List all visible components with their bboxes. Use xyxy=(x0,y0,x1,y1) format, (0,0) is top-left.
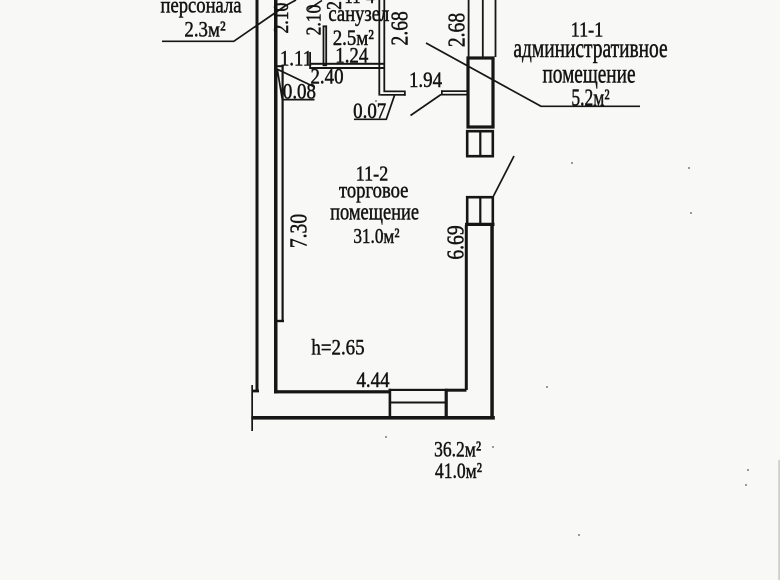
svg-text:4.44: 4.44 xyxy=(356,368,390,393)
window W1 xyxy=(467,130,493,157)
stairs xyxy=(389,389,447,418)
svg-text:1.11: 1.11 xyxy=(280,46,312,71)
leader to window xyxy=(494,156,515,196)
window W2 xyxy=(465,196,495,226)
floor plan line work xyxy=(162,0,640,431)
wall right outer lower xyxy=(490,225,494,418)
svg-text:0.08: 0.08 xyxy=(283,79,316,104)
svg-text:2.10: 2.10 xyxy=(271,3,294,34)
leader персонала xyxy=(162,0,296,41)
svg-text:персонала: персонала xyxy=(160,0,241,18)
svg-text:2.68: 2.68 xyxy=(385,11,413,45)
wall stub 0.07 xyxy=(380,91,406,96)
wall toilet bottom double line xyxy=(309,52,383,69)
vestibule step wall xyxy=(445,389,467,419)
svg-text:41.0м²: 41.0м² xyxy=(435,459,482,484)
svg-text:h=2.65: h=2.65 xyxy=(311,335,364,360)
svg-text:2.10: 2.10 xyxy=(303,5,326,36)
scan edge right xyxy=(778,460,780,580)
wall left outer xyxy=(252,0,259,392)
wall right inner lower xyxy=(465,225,468,390)
wall toilet left xyxy=(324,26,327,65)
svg-text:2.68: 2.68 xyxy=(442,13,470,47)
svg-text:помещение: помещение xyxy=(330,198,419,225)
svg-text:0.07: 0.07 xyxy=(353,99,386,124)
leader 11-1 xyxy=(426,43,640,106)
leader 0.08 xyxy=(277,69,314,99)
wall pier right xyxy=(468,58,493,127)
bottom wall inner xyxy=(275,390,391,393)
wall left pilaster strip xyxy=(274,65,284,322)
svg-text:санузел: санузел xyxy=(328,0,389,26)
extension line bottom-left xyxy=(251,385,253,431)
svg-text:31.0м²: 31.0м² xyxy=(353,226,399,249)
scan specks xyxy=(375,100,749,536)
svg-text:7.30: 7.30 xyxy=(284,214,312,248)
svg-text:6.69: 6.69 xyxy=(441,225,469,259)
window above pier xyxy=(468,0,497,57)
slash through 2.10 second xyxy=(308,1,322,10)
wall stub right of door xyxy=(441,90,467,95)
svg-text:1.94: 1.94 xyxy=(409,67,443,92)
bottom wall outer xyxy=(251,416,494,420)
leader 0.07 xyxy=(354,95,395,119)
svg-text:5.2м²: 5.2м² xyxy=(571,84,609,111)
svg-text:2.3м²: 2.3м² xyxy=(184,17,225,42)
wall left inner xyxy=(274,0,278,394)
wall toilet right double line xyxy=(378,0,385,96)
door leaf xyxy=(411,95,442,116)
